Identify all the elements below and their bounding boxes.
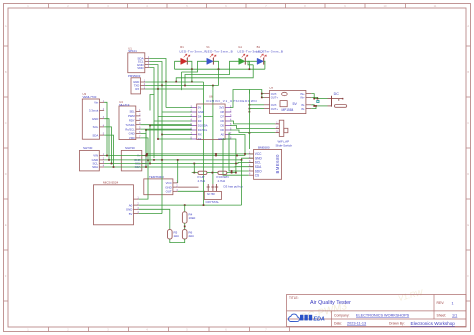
wire U1 SCL <box>149 62 162 86</box>
svg-text:PWM: PWM <box>128 114 135 118</box>
svg-text:OUT-: OUT- <box>271 103 278 107</box>
wire U4 GND <box>140 134 146 156</box>
svg-text:LED-Tm-3mm_R: LED-Tm-3mm_R <box>180 49 208 53</box>
wire MP1584 out bottom <box>249 104 264 106</box>
svg-text:GND: GND <box>92 117 98 121</box>
wire TEMT OUT <box>178 190 205 192</box>
MCU U6 D1MINI_V1_UPSIDEDOWN <box>197 104 225 140</box>
svg-text:D5: D5 <box>220 124 224 128</box>
junction staircase <box>165 81 167 83</box>
wire MP1584 out top <box>249 90 264 98</box>
svg-text:REV:: REV: <box>437 301 445 305</box>
wire LED1 cathode drop <box>189 61 192 69</box>
wire U4 VDD <box>140 138 148 160</box>
svg-text:D0: D0 <box>220 128 224 132</box>
JLC EDA logo <box>289 314 300 321</box>
svg-text:RX: RX <box>135 87 139 91</box>
svg-text:D: D <box>5 172 7 176</box>
svg-text:VEML7700: VEML7700 <box>83 95 97 99</box>
svg-text:SDA: SDA <box>92 165 98 169</box>
svg-text:A: A <box>5 24 7 28</box>
wire MP1584 in bottom <box>311 105 314 106</box>
wire LED3 anode net <box>185 61 233 85</box>
svg-text:TITLE:: TITLE: <box>289 296 299 300</box>
LED G1 green LED-Tm-3mm_G <box>233 60 239 62</box>
svg-text:D: D <box>467 172 469 176</box>
wire rail x191 down <box>191 69 193 82</box>
wire LED2 cathode drop <box>215 61 219 69</box>
wire U6 3V3 to MP1584 <box>230 90 249 108</box>
svg-text:Date:: Date: <box>334 322 342 326</box>
svg-text:Electronics Workshop: Electronics Workshop <box>411 321 456 326</box>
crystal X1 32.768k RTC <box>207 184 209 191</box>
wire U6 D1 <box>146 129 192 131</box>
svg-text:E: E <box>5 223 7 227</box>
wire MICS A0 bus <box>139 204 242 206</box>
svg-text:SEL: SEL <box>130 110 136 114</box>
wire LED1 anode drop <box>174 61 176 69</box>
wire U6 D8 left <box>162 134 192 136</box>
wire R4 to R6 <box>184 223 186 229</box>
wire LED cathode bus <box>175 68 265 70</box>
wire rail x166 down <box>165 82 167 108</box>
junction BME <box>231 170 233 172</box>
resistor R2 P-UP 4.7k <box>192 172 198 174</box>
junction LED bus <box>191 68 193 70</box>
wire MICS pin1 <box>139 160 148 199</box>
svg-text:Rx/SCL: Rx/SCL <box>125 127 135 131</box>
wire U6 GND <box>162 111 192 113</box>
svg-text:1: 1 <box>452 301 454 305</box>
wire U6 RST <box>230 139 236 173</box>
svg-text:D3: D3 <box>198 119 202 123</box>
wire rail x203b lower <box>203 117 205 206</box>
svg-text:MICS-5524: MICS-5524 <box>103 181 119 185</box>
junction DC feed <box>313 98 315 100</box>
wire bus VCC top <box>147 153 254 155</box>
wire U3 SCL <box>104 127 111 164</box>
resistor R3 P-DOWN 4.7k <box>218 171 227 174</box>
LED B1 blue LED-Tm-3mm_B <box>251 60 257 62</box>
svg-text:3.3vout: 3.3vout <box>89 109 99 113</box>
svg-text:B: B <box>5 70 7 74</box>
svg-text:TX: TX <box>198 137 202 141</box>
IC U4 MH-Z19 CO2 sensor <box>119 106 136 140</box>
wire P1 pin1 bus <box>145 81 203 83</box>
wire U3 GND <box>104 119 109 160</box>
wire MICS 5V <box>139 213 162 215</box>
wire rail x203 down through U6 <box>204 82 213 117</box>
wire rail x158 down <box>157 89 159 139</box>
wire bus GND <box>104 158 253 160</box>
svg-text:BME680: BME680 <box>258 146 270 150</box>
svg-text:A: A <box>467 24 469 28</box>
svg-text:3V3: 3V3 <box>219 106 224 110</box>
svg-text:RDY: RDY <box>129 119 135 123</box>
wire U6 D3 <box>154 95 192 122</box>
wire DC - feed <box>314 105 327 107</box>
svg-text:4.7kΩ: 4.7kΩ <box>218 179 226 183</box>
svg-text:GND: GND <box>129 132 135 136</box>
IC U11 TEMT6000 ambient light <box>144 179 173 195</box>
wire U6 D4 <box>158 116 192 118</box>
junction buses <box>106 155 108 157</box>
svg-text:CS: CS <box>255 174 259 178</box>
wire P1 pin3 bus <box>145 88 203 90</box>
wire bus VIN to BME <box>244 154 246 156</box>
wire U6 D5 to switch <box>230 126 275 129</box>
IC U3 VEML7700 light sensor <box>82 99 99 139</box>
IC U10 BME680 module <box>254 150 282 180</box>
wire bus VIN <box>104 155 245 157</box>
wire LED2 anode rail <box>181 72 183 90</box>
power module U7 MP1584 5V <box>270 90 306 113</box>
svg-text:G1: G1 <box>238 45 242 49</box>
wire BME CS <box>223 139 249 175</box>
wire U6 A0 <box>230 135 245 156</box>
resistor R4 10k <box>184 205 186 212</box>
svg-text:32.768: 32.768 <box>207 193 215 196</box>
wire U1 GND <box>149 65 158 91</box>
junction U6 left <box>149 125 151 127</box>
svg-text:LED-Tm-3mm_B: LED-Tm-3mm_B <box>206 49 233 53</box>
wire VCC riser <box>146 154 148 156</box>
wire LED2 anode net <box>182 61 201 72</box>
title block <box>287 295 467 327</box>
svg-text:SDA: SDA <box>92 133 98 137</box>
LED V1 blue LED-Tm-3mm_B <box>201 60 207 62</box>
svg-text:V1: V1 <box>206 45 210 49</box>
svg-text:OUT: OUT <box>166 190 172 194</box>
svg-text:RX: RX <box>198 133 202 137</box>
svg-text:D2/SDA: D2/SDA <box>198 124 208 128</box>
svg-text:Tx/SDA: Tx/SDA <box>125 123 134 127</box>
svg-text:SCL: SCL <box>93 125 99 129</box>
wire U4 RX <box>140 128 191 130</box>
svg-text:DC: DC <box>334 92 340 96</box>
wire rail x249 down <box>248 90 250 150</box>
svg-text:D7: D7 <box>220 115 224 119</box>
junction pull-ups <box>193 172 195 174</box>
svg-text:A0: A0 <box>221 133 225 137</box>
svg-text:2023-11-13: 2023-11-13 <box>347 322 366 326</box>
wire LED3 cathode drop <box>247 61 250 69</box>
wire LED4 anode net <box>248 61 253 65</box>
svg-text:D6: D6 <box>220 119 224 123</box>
wire BME SDO <box>229 133 249 171</box>
wire U3 Vin <box>104 102 107 155</box>
junction right of U6 <box>249 111 251 113</box>
junction VCC top <box>146 153 148 155</box>
svg-text:C: C <box>5 121 7 125</box>
svg-text:IN-: IN- <box>301 103 305 107</box>
svg-text:ELECTRONICS WORKSHOPS: ELECTRONICS WORKSHOPS <box>356 313 410 317</box>
svg-text:10kΩ: 10kΩ <box>189 216 197 220</box>
switch SW1 WiFi_AP slide switch <box>279 120 284 136</box>
junction R4 R6 <box>184 226 186 228</box>
IC U12 MICS-5524 gas sensor <box>94 185 134 225</box>
svg-text:B1: B1 <box>257 45 261 49</box>
svg-text:4.7kΩ: 4.7kΩ <box>198 179 206 183</box>
svg-text:IN-: IN- <box>301 107 305 111</box>
svg-text:IN+: IN+ <box>300 96 305 100</box>
svg-text:MP1584: MP1584 <box>282 108 294 112</box>
IC U8 SHT30 temp humidity sensor <box>80 150 100 171</box>
LED R1 red LED-Tm-3mm_R <box>175 60 181 62</box>
wire TEMT GND <box>178 186 199 188</box>
wire pullup left rail <box>193 164 195 173</box>
junction MP1584 out <box>261 93 263 95</box>
svg-text:Sheet:: Sheet: <box>437 313 447 317</box>
wire rail x146 down <box>145 130 147 167</box>
svg-text:D3 has pull-up: D3 has pull-up <box>224 185 244 189</box>
svg-text:Slide-Switch: Slide-Switch <box>276 143 293 147</box>
svg-text:2kΩ: 2kΩ <box>189 234 195 238</box>
junction MICS area <box>184 204 186 206</box>
wire U4 TX <box>140 124 191 126</box>
svg-text:VDD: VDD <box>129 136 135 140</box>
faint watermark <box>299 281 425 329</box>
wire U6 D2 <box>150 125 192 127</box>
svg-text:VIN: VIN <box>93 154 98 158</box>
svg-text:PMS5003: PMS5003 <box>128 74 141 78</box>
wire TEMT VCC <box>177 160 179 183</box>
wire MICS GND to R5 <box>139 209 170 229</box>
svg-text:OUT+: OUT+ <box>271 96 279 100</box>
svg-text:GND: GND <box>198 110 204 114</box>
wire U1 VDD <box>149 68 154 111</box>
svg-text:SGP30: SGP30 <box>125 146 135 150</box>
resistor R6 2k <box>182 230 187 239</box>
wire U6 5V <box>166 107 192 109</box>
wire rail x154 down <box>153 121 155 158</box>
svg-text:Drawn By:: Drawn By: <box>389 322 405 326</box>
svg-text:D4: D4 <box>198 115 202 119</box>
IC U9 SGP30 VOC sensor <box>121 150 142 171</box>
svg-text:D8: D8 <box>220 110 224 114</box>
wire LED4 anode rail <box>176 65 253 82</box>
wire U3 SDA <box>104 135 113 167</box>
svg-text:U7: U7 <box>270 86 274 90</box>
resistor R5 1k <box>168 230 173 239</box>
svg-text:Vin: Vin <box>94 101 99 105</box>
svg-text:EDA: EDA <box>313 317 324 323</box>
svg-text:1kΩ: 1kΩ <box>174 234 180 238</box>
svg-text:U6: U6 <box>209 95 213 99</box>
connector P1 PMS5003 <box>131 78 141 94</box>
wire U6 D6 to switch <box>230 121 275 124</box>
net flag teal <box>317 100 319 102</box>
svg-text:5V: 5V <box>293 102 298 106</box>
svg-text:C: C <box>467 121 469 125</box>
wire rail x218 down <box>218 69 220 85</box>
svg-text:OUT-: OUT- <box>271 92 278 96</box>
wire rail x162 lower <box>161 135 163 214</box>
svg-text:D1/SCL: D1/SCL <box>198 128 208 132</box>
wire bus SDA <box>104 166 253 168</box>
wire R5 R6 bottom join <box>170 239 185 243</box>
svg-text:BME680: BME680 <box>275 154 280 174</box>
svg-text:R1: R1 <box>180 45 184 49</box>
svg-text:Company:: Company: <box>334 313 350 317</box>
wire rail x162 down <box>161 86 163 135</box>
svg-text:E: E <box>467 223 469 227</box>
svg-text:IN+: IN+ <box>300 92 305 96</box>
svg-text:VDD: VDD <box>137 66 144 70</box>
wire U6 D0 to switch <box>230 130 275 133</box>
wire U6 TX left <box>158 138 192 140</box>
wire rail x150 down <box>149 126 151 164</box>
svg-text:B: B <box>467 70 469 74</box>
wire LED4 cathode drop <box>264 61 266 69</box>
svg-text:5V: 5V <box>129 212 133 216</box>
svg-text:1/1: 1/1 <box>452 313 457 317</box>
svg-text:MH-Z19: MH-Z19 <box>119 103 130 107</box>
svg-text:SHT30: SHT30 <box>83 146 93 150</box>
wire bus SCL <box>104 162 253 163</box>
svg-text:LED-Tm-3mm_B: LED-Tm-3mm_B <box>256 49 283 53</box>
wire SGP30 stubs join <box>146 155 148 157</box>
wire DC + feed <box>314 98 327 100</box>
wire MP1584 in top <box>311 94 314 99</box>
svg-text:Air Quality Tester: Air Quality Tester <box>310 300 351 306</box>
wire P1 pin2 bus <box>145 85 218 87</box>
wire crystal border <box>241 160 243 205</box>
svg-text:OUT+: OUT+ <box>271 107 279 111</box>
svg-text:CRYSTAL: CRYSTAL <box>206 200 220 204</box>
IC U1 SP101 OLED header <box>128 53 145 73</box>
svg-text:5V: 5V <box>198 106 201 110</box>
svg-text:SP101: SP101 <box>128 49 137 53</box>
wire rail x212 down through U6 <box>212 86 214 185</box>
wire U1 SDA <box>149 59 166 82</box>
